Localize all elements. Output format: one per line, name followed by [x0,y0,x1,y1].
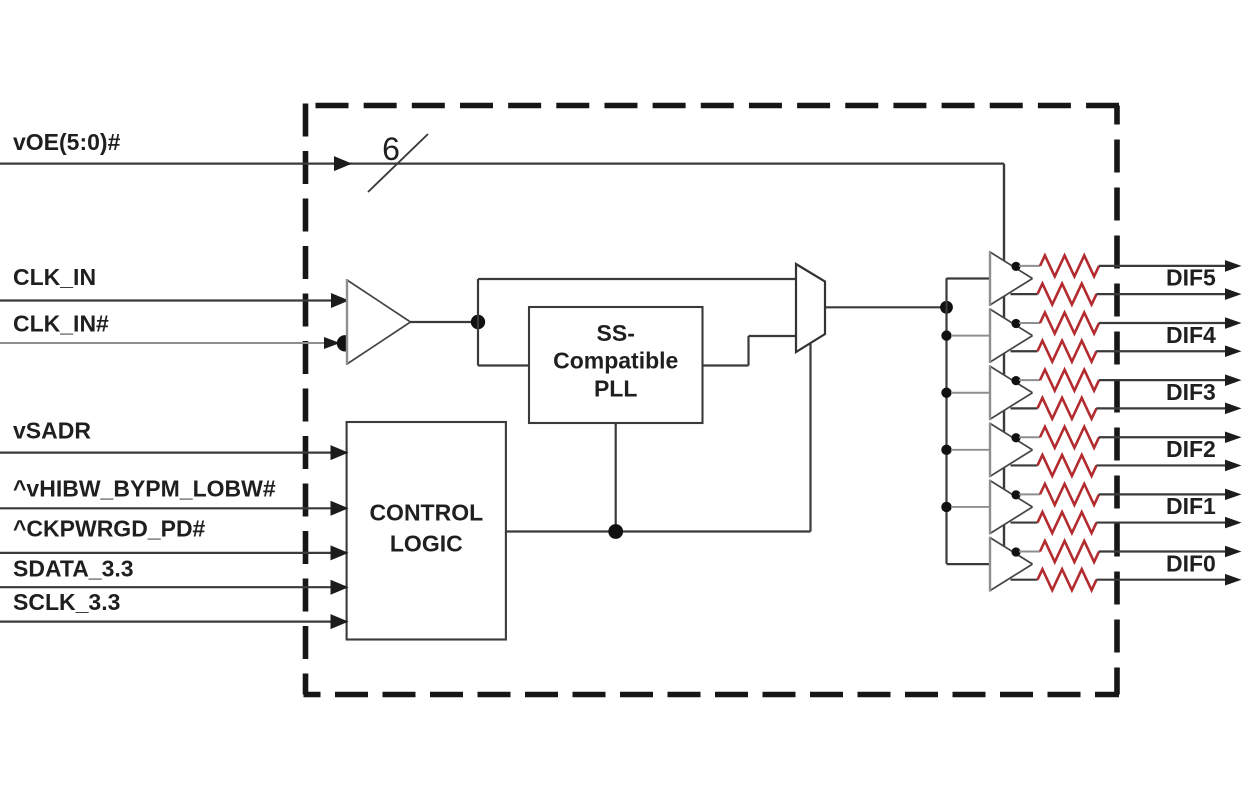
wire DIF4 complement lead [1011,350,1038,352]
wire vSADR [0,452,347,454]
wire PLL bottom tap [615,423,617,532]
input differential buffer [347,279,411,365]
svg-text:CLK_IN#: CLK_IN# [13,311,109,337]
junction dot trunk branch DIF3 [941,388,951,398]
wire DIF4 true lead (gray) [1019,322,1040,324]
wire control to mux select horizontal [506,530,811,532]
wire CLK_IN [0,299,347,301]
arrowhead DIF1 true [1225,489,1242,501]
series resistor DIF0 complement [1038,569,1097,590]
svg-text:DIF4: DIF4 [1166,322,1216,348]
series resistor DIF1 true [1040,484,1099,505]
arrowhead DIF4 true [1225,317,1242,329]
arrowhead DIF0 complement [1225,574,1242,586]
arrowhead DIF0 true [1225,546,1242,558]
label DIF1 [1166,493,1216,519]
junction dot DIF0 true output tap [1011,547,1020,556]
svg-text:DIF3: DIF3 [1166,379,1216,405]
wire trunk to buffer DIF5 (top corner) [947,277,991,279]
junction dot trunk branch DIF2 [941,445,951,455]
wire DIF2 true lead (gray) [1019,436,1040,438]
wire trunk branch to buffer DIF1 (gray) [951,506,990,508]
svg-text:LOGIC: LOGIC [390,531,463,557]
wire DIF5 true output [1099,265,1227,267]
junction dot mux output on trunk [940,301,953,314]
arrowhead DIF3 true [1225,374,1242,386]
wire node to PLL input [478,364,529,366]
label vOE(5:0)# [13,129,121,155]
bus width label 6 [382,131,400,167]
junction dot DIF1 true output tap [1011,490,1020,499]
wire DIF3 complement output [1096,407,1227,409]
wire PLL bypass (node to mux) [478,278,796,280]
wire DIF0 complement output [1096,579,1227,581]
svg-text:DIF1: DIF1 [1166,493,1216,519]
series resistor DIF4 complement [1038,341,1097,362]
wire DIF5 complement output [1096,293,1227,295]
series resistor DIF2 complement [1038,455,1097,476]
arrowhead SDATA_3.3 [331,580,349,595]
svg-text:Compatible: Compatible [553,348,678,374]
arrowhead ^vHIBW_BYPM_LOBW# [331,501,349,516]
svg-text:^vHIBW_BYPM_LOBW#: ^vHIBW_BYPM_LOBW# [13,476,276,502]
series resistor DIF3 complement [1038,398,1097,419]
output buffer DIF4 [990,308,1033,363]
chip boundary dashed box (right edge) [1114,106,1120,695]
arrowhead on vOE wire [334,156,352,171]
wire trunk to buffer DIF0 (bottom corner) [947,563,991,565]
label DIF3 [1166,379,1216,405]
label CLK_IN [13,264,96,290]
wire DIF0 true output [1099,550,1227,552]
wire SCLK_3.3 [0,620,347,622]
wire trunk branch to buffer DIF2 (gray) [951,449,990,451]
output buffer DIF5 [990,251,1033,306]
svg-text:vSADR: vSADR [13,418,91,444]
wire DIF4 complement output [1096,350,1227,352]
series resistor DIF2 true [1040,427,1099,448]
wire trunk branch to buffer DIF3 (gray) [951,392,990,394]
wire SDATA_3.3 [0,586,347,588]
label vSADR [13,418,91,444]
arrowhead DIF4 complement [1225,345,1242,357]
wire buffer output [411,321,479,323]
junction dot trunk branch DIF1 [941,502,951,512]
svg-text:PLL: PLL [594,376,637,402]
label DIF0 [1166,550,1216,576]
output buffer DIF0 [990,537,1033,592]
wire DIF1 complement lead [1011,521,1038,523]
wire distribution trunk vertical [945,278,947,564]
series resistor DIF1 complement [1038,512,1097,533]
series resistor DIF4 true [1040,313,1099,334]
label ^vHIBW_BYPM_LOBW# [13,476,276,502]
svg-text:SS-: SS- [597,320,635,346]
svg-text:6: 6 [382,131,400,167]
svg-text:^CKPWRGD_PD#: ^CKPWRGD_PD# [13,516,206,542]
wire DIF2 complement lead [1011,464,1038,466]
svg-text:DIF0: DIF0 [1166,550,1216,576]
wire PLL output vertical [747,336,749,366]
wire DIF0 complement lead [1011,579,1038,581]
junction dot DIF4 true output tap [1011,319,1020,328]
arrowhead CLK_IN [331,293,349,308]
label SCLK_3.3 [13,589,120,615]
svg-text:CLK_IN: CLK_IN [13,264,96,290]
wire vOE vertical drop to output buffers [1003,164,1005,565]
wire PLL output to mux [749,335,797,337]
output buffer DIF2 [990,422,1033,477]
svg-text:DIF2: DIF2 [1166,436,1216,462]
arrowhead CLK_IN# [324,337,340,349]
wire DIF3 true output [1099,379,1227,381]
svg-text:SCLK_3.3: SCLK_3.3 [13,589,120,615]
label SDATA_3.3 [13,556,134,582]
block SS-Compatible PLL [529,307,703,423]
wire mux select vertical [809,344,811,532]
svg-text:CONTROL: CONTROL [369,500,483,526]
wire DIF0 true lead (gray) [1019,551,1040,553]
inverting-input dot on CLK_IN# [337,335,353,351]
arrowhead vSADR [331,445,349,460]
mux (2:1 clock select) [796,264,825,352]
svg-text:vOE(5:0)#: vOE(5:0)# [13,129,121,155]
arrowhead SCLK_3.3 [331,614,349,629]
arrowhead DIF3 complement [1225,403,1242,415]
series resistor DIF0 true [1040,541,1099,562]
wire DIF5 true lead (gray) [1019,265,1040,267]
wire trunk branch to buffer DIF4 (gray) [951,335,990,337]
wire DIF4 true output [1099,322,1227,324]
arrowhead DIF1 complement [1225,517,1242,529]
label ^CKPWRGD_PD# [13,516,206,542]
block CONTROL LOGIC [347,422,506,640]
arrowhead ^CKPWRGD_PD# [331,545,349,560]
junction dot buffer output node [471,315,485,329]
wire DIF2 true output [1099,436,1227,438]
wire DIF1 true lead (gray) [1019,493,1040,495]
chip boundary dashed box (bottom edge) [304,692,1120,698]
wire DIF5 complement lead [1011,293,1038,295]
wire DIF1 true output [1099,493,1227,495]
arrowhead DIF2 complement [1225,460,1242,472]
junction dot DIF2 true output tap [1011,433,1020,442]
wire mux output [825,306,947,308]
output buffer DIF3 [990,365,1033,420]
wire DIF3 complement lead [1011,407,1038,409]
junction dot DIF5 true output tap [1011,262,1020,271]
series resistor DIF5 complement [1038,284,1097,305]
label DIF2 [1166,436,1216,462]
wire CLK_IN# (gray) [0,342,338,344]
wire ^vHIBW_BYPM_LOBW# [0,507,347,509]
svg-text:SDATA_3.3: SDATA_3.3 [13,556,134,582]
bus width slash [368,134,428,192]
chip boundary dashed box (left edge) [303,104,309,695]
wire node vertical [477,279,479,366]
junction dot trunk branch DIF4 [941,330,951,340]
label DIF5 [1166,265,1216,291]
arrowhead DIF2 true [1225,431,1242,443]
wire vOE horizontal [0,163,1004,165]
svg-text:DIF5: DIF5 [1166,265,1216,291]
label DIF4 [1166,322,1216,348]
wire DIF2 complement output [1096,464,1227,466]
series resistor DIF5 true [1040,255,1099,276]
wire DIF1 complement output [1096,521,1227,523]
series resistor DIF3 true [1040,370,1099,391]
arrowhead DIF5 true [1225,260,1242,272]
arrowhead DIF5 complement [1225,288,1242,300]
junction dot PLL/control [608,524,623,539]
chip boundary dashed box (top edge) [304,103,1120,109]
output buffer DIF1 [990,479,1033,534]
wire PLL output horizontal [703,364,749,366]
wire ^CKPWRGD_PD# [0,552,347,554]
label CLK_IN# [13,311,109,337]
wire DIF3 true lead (gray) [1019,379,1040,381]
junction dot DIF3 true output tap [1011,376,1020,385]
